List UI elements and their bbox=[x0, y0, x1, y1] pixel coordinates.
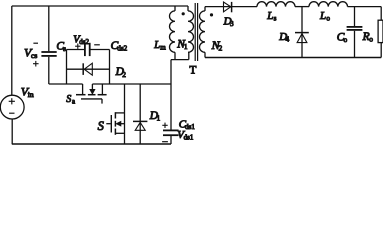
svg-text:2: 2 bbox=[122, 70, 126, 79]
svg-text:3: 3 bbox=[230, 20, 234, 28]
svg-text:4: 4 bbox=[286, 36, 290, 44]
svg-text:T: T bbox=[189, 65, 196, 77]
svg-text:m: m bbox=[160, 44, 166, 52]
svg-text:L: L bbox=[266, 10, 273, 22]
svg-text:ds1: ds1 bbox=[184, 134, 194, 142]
svg-text:L: L bbox=[319, 10, 326, 22]
svg-text:L: L bbox=[153, 40, 160, 51]
svg-text:o: o bbox=[343, 35, 347, 44]
svg-text:ds2: ds2 bbox=[79, 38, 89, 46]
svg-text:o: o bbox=[326, 15, 330, 23]
svg-text:in: in bbox=[28, 90, 34, 99]
svg-text:ds2: ds2 bbox=[117, 44, 127, 52]
svg-text:S: S bbox=[66, 94, 71, 105]
svg-text:a: a bbox=[72, 99, 75, 106]
svg-text:2: 2 bbox=[219, 44, 223, 53]
svg-text:S: S bbox=[98, 119, 105, 133]
svg-text:s: s bbox=[63, 44, 66, 53]
svg-text:ds1: ds1 bbox=[185, 123, 195, 131]
svg-text:cs: cs bbox=[31, 51, 37, 60]
svg-text:1: 1 bbox=[184, 42, 188, 51]
svg-text:o: o bbox=[369, 35, 373, 44]
svg-text:s: s bbox=[274, 14, 277, 22]
svg-text:1: 1 bbox=[156, 113, 160, 122]
